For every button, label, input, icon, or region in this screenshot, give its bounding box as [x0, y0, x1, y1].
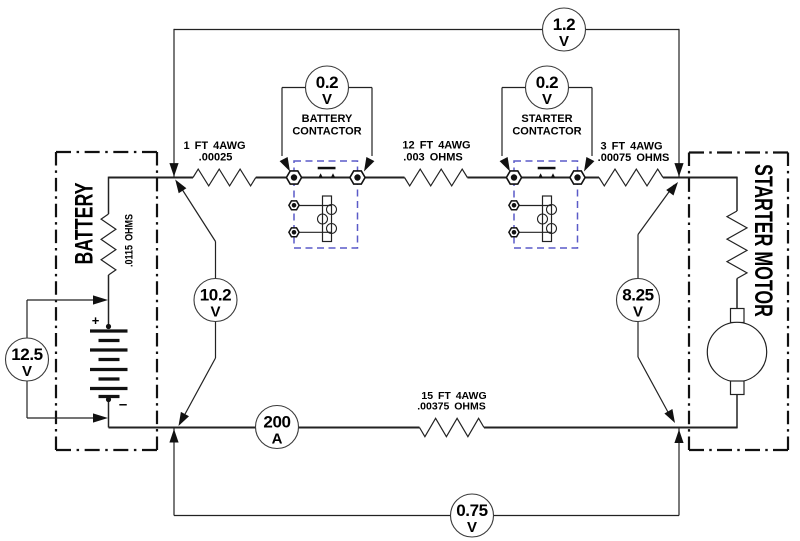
svg-text:12 FT 4AWG: 12 FT 4AWG — [402, 140, 470, 152]
svg-text:STARTER MOTOR: STARTER MOTOR — [749, 164, 777, 317]
svg-text:0.2: 0.2 — [536, 73, 558, 92]
svg-text:V: V — [542, 91, 552, 108]
resistor R4 (15 FT 4AWG cable) — [420, 418, 485, 436]
coil windings of starter contactor — [538, 205, 557, 234]
relay box starter contactor enclosure (dashed) — [514, 161, 578, 248]
svg-text:.00025: .00025 — [199, 152, 233, 164]
svg-text:8.25: 8.25 — [622, 286, 654, 305]
lead arrow to left bottom junction — [179, 412, 190, 426]
fixed contact tips of battery contactor — [318, 173, 335, 178]
coil core of starter contactor — [543, 196, 552, 242]
svg-text:V: V — [210, 304, 220, 321]
svg-text:CONTACTOR: CONTACTOR — [512, 126, 581, 138]
voltmeter circuit left 10.2 V — [194, 279, 237, 322]
value label R1: 1 FT 4AWG .00025 — [183, 140, 245, 164]
lead arrow to right bottom junction — [664, 409, 675, 423]
terminal T1 of battery contactor — [286, 171, 301, 184]
svg-text:12.5: 12.5 — [11, 345, 43, 364]
voltmeter V-bottom 0.75 V — [451, 494, 494, 537]
svg-text:A: A — [272, 431, 283, 448]
fixed contact tips of starter contactor — [538, 173, 555, 178]
motor M1 body — [707, 322, 766, 381]
wire: main positive cable (battery to starter) — [109, 177, 738, 179]
value label R2: 12 FT 4AWG .003 OHMS — [402, 140, 470, 164]
label: STARTER CONTACTOR — [512, 113, 581, 138]
svg-text:1.2: 1.2 — [553, 15, 575, 34]
terminal T1 of starter contactor — [506, 171, 521, 184]
ammeter A1 200 A — [256, 406, 299, 449]
lead arrow to battery - post — [93, 413, 108, 422]
motor M1 bottom brush — [731, 381, 745, 395]
node: left bottom junction arrow (bottom loop lead) — [169, 429, 178, 443]
lead arrow to left top junction — [175, 180, 186, 194]
wire: battery voltmeter leads — [27, 300, 101, 418]
value label R3: 3 FT 4AWG .00075 OHMS — [598, 141, 670, 165]
terminal T2 of battery contactor — [350, 171, 365, 184]
svg-text:10.2: 10.2 — [200, 286, 232, 305]
voltmeter V-total 1.2 V — [543, 8, 586, 51]
terminal T2 of starter contactor — [570, 171, 585, 184]
svg-text:BATTERY: BATTERY — [70, 182, 98, 264]
svg-text:V: V — [22, 363, 32, 380]
resistor R-int (starter motor internal) — [727, 211, 747, 279]
label: BATTERY (rotated) — [70, 182, 98, 264]
starter motor enclosure box (dash-dot) — [689, 153, 788, 451]
relay box battery contactor enclosure (dashed) — [294, 161, 358, 248]
resistor R-int .0115 OHMS (battery internal) — [101, 214, 116, 275]
voltmeter across battery contactor 0.2 V — [306, 66, 349, 109]
svg-text:.0115 OHMS: .0115 OHMS — [124, 214, 136, 267]
svg-text:.003 OHMS: .003 OHMS — [403, 152, 462, 164]
lead arrow to battery + post — [93, 295, 108, 304]
battery B1 positive terminal dot — [106, 324, 111, 329]
wire: voltmeter 8.25V leads — [638, 185, 674, 420]
coil terminal B of battery contactor — [289, 228, 299, 237]
lead arrow to T2 of battery contactor — [364, 157, 374, 172]
svg-text:V: V — [322, 91, 332, 108]
label: BATTERY CONTACTOR — [292, 113, 361, 138]
value label: .0115 OHMS (rotated) — [124, 214, 136, 267]
svg-text:1 FT 4AWG: 1 FT 4AWG — [183, 140, 245, 152]
resistor R3 (3 FT 4AWG cable) — [599, 169, 663, 186]
label: + polarity — [92, 313, 100, 328]
svg-text:–: – — [119, 396, 127, 413]
svg-text:+: + — [92, 313, 100, 328]
coil leads of battery contactor — [294, 206, 331, 233]
motor M1 top brush — [731, 309, 745, 323]
node: right main junction arrow (top loop lead) — [674, 163, 683, 177]
wire: voltmeter 10.2V leads — [179, 185, 216, 422]
contact bar of starter contactor — [538, 167, 556, 170]
coil terminal A of battery contactor — [289, 201, 299, 210]
svg-text:0.2: 0.2 — [316, 73, 338, 92]
svg-text:.00075 OHMS: .00075 OHMS — [598, 152, 670, 164]
wire: outer bottom measurement loop — [174, 428, 679, 516]
svg-text:V: V — [633, 304, 643, 321]
label: STARTER MOTOR (rotated) — [749, 164, 777, 317]
svg-text:BATTERY: BATTERY — [302, 113, 353, 125]
wire: voltmeter leads across battery contactor — [282, 88, 372, 157]
battery enclosure box (dash-dot) — [56, 152, 157, 450]
voltmeter across starter contactor 0.2 V — [526, 66, 569, 109]
wire: starter motor internal branch — [736, 177, 738, 429]
coil leads of starter contactor — [514, 206, 551, 233]
battery B1 plates — [90, 331, 128, 397]
label: - polarity — [119, 396, 127, 413]
value label R4: 15 FT 4AWG .00375 OHMS — [417, 390, 486, 413]
wire: voltmeter leads across starter contactor — [502, 88, 592, 157]
lead arrow to T1 of starter contactor — [500, 157, 510, 172]
wire: outer top measurement loop — [174, 29, 679, 177]
node: left main junction arrow (top loop lead) — [169, 163, 178, 177]
svg-text:.00375 OHMS: .00375 OHMS — [417, 401, 486, 413]
coil core of battery contactor — [323, 196, 332, 242]
contact bar of battery contactor — [318, 167, 336, 170]
coil terminal B of starter contactor — [509, 228, 519, 237]
wire: battery internal branch — [108, 177, 110, 428]
battery B1 negative terminal dot — [106, 397, 111, 402]
wire: main negative cable (bottom return) — [109, 427, 738, 429]
resistor R2 (12 FT 4AWG cable) — [405, 169, 468, 186]
svg-text:V: V — [559, 33, 569, 50]
svg-text:CONTACTOR: CONTACTOR — [292, 126, 361, 138]
lead arrow to T2 of starter contactor — [584, 157, 594, 172]
lead arrow to T1 of battery contactor — [280, 157, 290, 172]
svg-text:0.75: 0.75 — [456, 501, 488, 520]
coil terminal A of starter contactor — [509, 201, 519, 210]
svg-text:3 FT 4AWG: 3 FT 4AWG — [600, 141, 662, 153]
coil windings of battery contactor — [318, 205, 337, 234]
node: right bottom junction arrow (bottom loop lead) — [674, 430, 683, 444]
voltmeter battery terminal 12.5 V — [6, 338, 49, 381]
svg-text:STARTER: STARTER — [521, 113, 572, 125]
svg-text:V: V — [467, 519, 477, 536]
voltmeter circuit right 8.25 V — [617, 279, 660, 322]
svg-text:200: 200 — [263, 413, 290, 432]
lead arrow to right top junction — [666, 182, 678, 196]
resistor R1 (1 FT 4AWG cable) — [193, 169, 256, 186]
